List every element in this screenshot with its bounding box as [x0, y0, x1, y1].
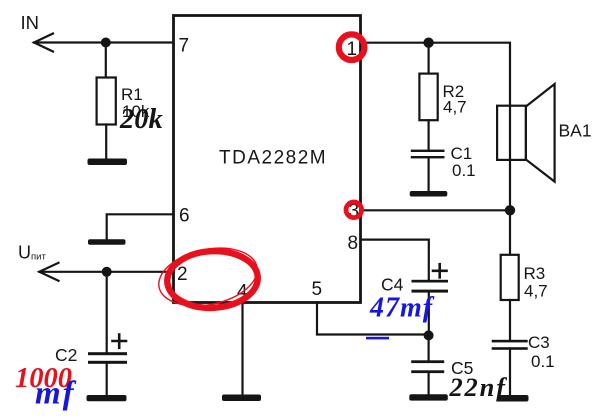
ground below C1: [410, 191, 448, 197]
wire C3 to ground: [509, 350, 511, 395]
svg-text:47mf: 47mf: [369, 293, 435, 324]
wire junction to C2: [106, 272, 108, 352]
blue underline mark: [366, 337, 389, 340]
svg-text:7: 7: [179, 36, 190, 57]
wire C5 to ground: [428, 373, 430, 394]
ground below C5: [409, 394, 448, 400]
svg-text:0.1: 0.1: [452, 161, 476, 180]
resistor R2: [419, 74, 437, 121]
plus sign C2: [113, 340, 127, 343]
wire R1 to ground: [105, 125, 107, 159]
arrowhead IN: [34, 34, 53, 52]
wire pin 1 to speaker: [361, 43, 510, 106]
ground below C3: [497, 395, 528, 402]
node junction pin3/speaker: [505, 205, 515, 215]
wire C4 to junction: [428, 293, 430, 336]
svg-text:BA1: BA1: [559, 121, 592, 141]
capacitor C5 plates: [411, 360, 444, 363]
wire R2 to C1: [428, 120, 430, 149]
ground below pin 4: [222, 395, 261, 402]
wire pin 8 to C4: [361, 240, 429, 280]
svg-text:C4: C4: [381, 275, 404, 295]
wire pin 3 to speaker net: [361, 209, 510, 211]
svg-text:0.1: 0.1: [531, 352, 555, 371]
capacitor C3 plates: [492, 340, 528, 343]
node junction C4/C5: [424, 330, 434, 340]
ground below C2: [87, 395, 127, 401]
capacitor C2 plates: [88, 352, 127, 355]
wire junction to R2: [428, 43, 430, 74]
svg-text:C2: C2: [55, 345, 77, 365]
wire pin 6: [107, 214, 174, 239]
wire Upit to pin 2: [39, 271, 173, 273]
svg-text:8: 8: [348, 233, 359, 254]
ground below R1: [88, 159, 128, 166]
resistor R3: [501, 255, 519, 300]
svg-text:4,7: 4,7: [443, 98, 467, 117]
svg-text:4,7: 4,7: [524, 282, 548, 301]
svg-text:5: 5: [312, 279, 323, 300]
wire pin 4 to ground: [241, 303, 243, 395]
svg-text:20k: 20k: [119, 104, 164, 135]
node junction at R2 top: [423, 38, 433, 48]
wire speaker to pin3 junction: [509, 106, 511, 211]
red ellipse around pins 2 and 4 (thin sketch pass): [153, 240, 262, 315]
plus sign C4: [433, 269, 447, 272]
red ellipse around pins 2 and 4 (thick): [166, 249, 259, 310]
svg-text:C3: C3: [528, 333, 550, 352]
red circle around pin 1: [339, 34, 365, 60]
svg-text:mf: mf: [35, 376, 77, 412]
wire C2 to ground: [106, 364, 108, 395]
svg-text:6: 6: [179, 206, 190, 227]
op-amp U1 TDA2282M body: [174, 16, 361, 303]
resistor R1: [97, 78, 116, 125]
wire R3 to C3: [509, 300, 511, 340]
svg-text:IN: IN: [21, 12, 40, 33]
wire C1 to ground: [428, 158, 430, 191]
wire IN to pin 7: [34, 41, 174, 43]
node junction at R1 top: [101, 38, 111, 48]
svg-text:2: 2: [177, 264, 188, 285]
wire junction to R1: [105, 43, 107, 78]
capacitor C4 plates: [412, 280, 449, 283]
speaker BA1 body: [497, 106, 526, 160]
svg-text:22nf: 22nf: [449, 372, 509, 402]
wire junction to C5: [428, 335, 430, 360]
wire pin 5: [317, 303, 429, 335]
svg-text:TDA2282M: TDA2282M: [219, 148, 327, 169]
red circle around pin 3: [346, 202, 362, 218]
ground at pin 6: [88, 239, 126, 245]
capacitor C1 plates: [411, 150, 445, 152]
speaker BA1 cone: [526, 84, 555, 182]
node junction at C2 top: [102, 267, 112, 277]
arrowhead Upit: [39, 263, 58, 281]
wire junction to R3: [509, 210, 511, 255]
svg-text:R3: R3: [524, 264, 546, 283]
